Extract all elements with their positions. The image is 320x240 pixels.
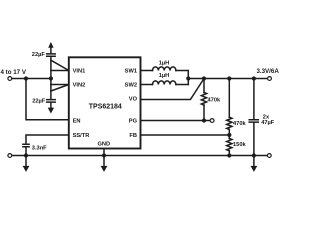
capacitor C1 plates [47, 54, 56, 56]
ground arrow center [101, 166, 108, 172]
svg-text:1µH: 1µH [159, 61, 170, 67]
svg-text:22µF: 22µF [32, 52, 46, 58]
wire divider mid [228, 129, 230, 138]
wire SS/TR to soft-start cap [26, 135, 69, 144]
svg-text:VIN1: VIN1 [73, 69, 86, 75]
terminal output [268, 77, 272, 81]
wire R1 bottom stem [203, 105, 205, 120]
ground stem right [253, 156, 255, 167]
svg-text:47µF: 47µF [261, 120, 275, 126]
inductor L1 coil [153, 67, 176, 71]
IC U1 TPS62184 box [69, 57, 141, 148]
ground arrow left [23, 166, 30, 172]
wire SW1 to L1 [141, 70, 153, 72]
capacitor C2 stem to ground arrow [50, 103, 52, 108]
wire VIN1 cap diagonal [51, 60, 69, 70]
svg-text:SS/TR: SS/TR [73, 133, 90, 139]
svg-text:GND: GND [97, 141, 110, 147]
ground arrow below C2 [48, 108, 54, 114]
wire VIN2 cap diagonal [51, 85, 69, 92]
resistor R3 150k zigzag [227, 139, 232, 151]
ground arrow right [251, 166, 258, 172]
wire VIN2 stub [51, 84, 69, 86]
wire R1 pullup top stem [203, 79, 205, 93]
wire soft-start cap to ground rail [25, 148, 27, 156]
wire output cap bottom stem [253, 123, 255, 156]
capacitor C4 output plates [249, 120, 258, 122]
wire input bus vertical [50, 56, 52, 99]
wire EN tie to VIN [26, 79, 69, 120]
capacitor C3 3.3nF plates [23, 144, 29, 147]
svg-text:470k: 470k [233, 121, 246, 127]
wire FB line [141, 134, 230, 136]
wire bottom ground rail [12, 155, 268, 157]
svg-text:PG: PG [129, 119, 138, 125]
svg-text:4 to 17 V: 4 to 17 V [1, 69, 27, 76]
ground stem center [103, 156, 105, 167]
svg-text:150k: 150k [233, 142, 246, 148]
svg-text:SW1: SW1 [125, 69, 137, 75]
svg-text:3.3V/6A: 3.3V/6A [256, 68, 279, 75]
svg-text:VIN2: VIN2 [73, 83, 86, 89]
svg-text:SW2: SW2 [125, 83, 137, 89]
wire output cap top stem [253, 79, 255, 120]
wire GND pin stub [103, 149, 105, 156]
svg-text:3.3nF: 3.3nF [32, 145, 47, 151]
ground arrow above C1 [48, 42, 53, 48]
terminal ground left [8, 154, 12, 158]
svg-text:22µF: 22µF [32, 99, 46, 105]
terminal input [8, 77, 12, 81]
svg-text:470k: 470k [208, 98, 221, 104]
junction dots [24, 76, 28, 80]
inductor L2 coil [153, 81, 176, 85]
capacitor C2 plates [47, 100, 56, 103]
wire divider top stem [228, 79, 230, 118]
wire PG line [141, 120, 211, 122]
svg-text:EN: EN [73, 119, 81, 125]
terminal PG [210, 119, 214, 123]
capacitor C1 22uF stem to ground arrow [50, 48, 52, 54]
wire input rail [12, 78, 51, 80]
wire SW2 to L2 [141, 84, 153, 86]
wire divider bottom stem [228, 151, 230, 156]
wire L2 to output node [176, 84, 188, 86]
resistor R2 470k divider zigzag [227, 117, 232, 129]
wire L1 to output node [176, 71, 188, 85]
ground stem left [25, 156, 27, 167]
wire VO sense diagonal [141, 79, 205, 100]
svg-text:VO: VO [129, 97, 138, 103]
wire output rail [188, 78, 267, 80]
svg-text:FB: FB [129, 133, 137, 139]
wire VIN1 stub [51, 70, 69, 72]
svg-text:1µH: 1µH [159, 73, 170, 79]
terminal ground right [267, 154, 271, 158]
svg-text:TPS62184: TPS62184 [89, 103, 122, 110]
resistor R1 470k pullup zigzag [201, 93, 206, 106]
